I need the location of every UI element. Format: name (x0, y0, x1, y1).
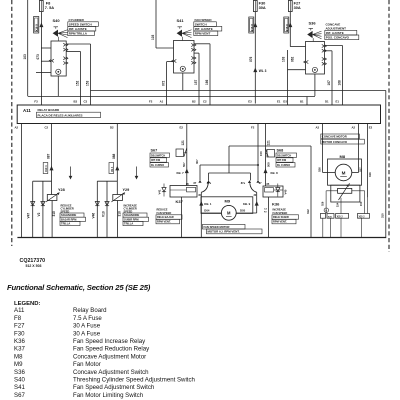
svg-text:168: 168 (337, 80, 341, 86)
svg-text:F2: F2 (251, 126, 255, 130)
svg-text:INCREASE: INCREASE (273, 208, 287, 212)
wire 046 (367, 124, 369, 198)
svg-text:S67: S67 (14, 392, 25, 399)
svg-text:153: 153 (85, 80, 89, 86)
junction KB.9 (255, 201, 259, 206)
svg-text:M9: M9 (14, 361, 23, 368)
sensor wires down (325, 191, 327, 214)
Y28 actuation arrow (70, 167, 72, 177)
svg-text:PLACA DE RELES AUXILIARES: PLACA DE RELES AUXILIARES (38, 114, 83, 118)
wire label 073 (40, 48, 42, 105)
svg-text:Fan Speed Reduction Relay: Fan Speed Reduction Relay (73, 346, 150, 353)
svg-text:062: 062 (291, 56, 295, 62)
svg-text:Fan Motor Limiting Switch: Fan Motor Limiting Switch (73, 392, 143, 399)
svg-text:TRILLA: TRILLA (61, 222, 70, 226)
svg-text:E2: E2 (180, 126, 184, 130)
wire K37 common down to motor (200, 192, 202, 237)
svg-text:046: 046 (368, 172, 372, 177)
svg-text:310: 310 (52, 211, 56, 217)
svg-text:V47: V47 (27, 213, 31, 219)
wire 026 (322, 124, 324, 173)
svg-text:E1: E1 (277, 100, 281, 104)
wire to K37 87a (208, 173, 210, 181)
svg-text:FAN SPEED MOTOR: FAN SPEED MOTOR (204, 225, 230, 229)
svg-text:ADJUSTMENT: ADJUSTMENT (326, 27, 347, 31)
svg-text:M8: M8 (340, 154, 346, 159)
relay K36 coil (263, 186, 283, 197)
svg-text:Y28: Y28 (58, 188, 65, 192)
svg-text:026: 026 (317, 167, 321, 172)
K37 label block (156, 215, 182, 219)
svg-text:512 X 503: 512 X 503 (26, 264, 42, 268)
svg-text:KB. 1: KB. 1 (204, 202, 212, 206)
svg-text:C2: C2 (45, 126, 49, 130)
svg-text:310: 310 (117, 211, 121, 217)
svg-text:K36: K36 (272, 201, 280, 206)
S36 contact box (306, 42, 325, 75)
svg-text:S41: S41 (14, 384, 25, 391)
wire S40 left pin 2 (41, 60, 51, 62)
svg-text:INT F/M: INT F/M (151, 159, 160, 162)
svg-text:157: 157 (194, 79, 198, 85)
svg-text:103: 103 (282, 56, 286, 62)
svg-text:X10 4: X10 4 (45, 165, 48, 172)
svg-text:MOTOR AJ. RPM VENT.: MOTOR AJ. RPM VENT. (208, 230, 240, 234)
svg-text:026: 026 (320, 201, 324, 206)
wire S36 out2 (325, 50, 333, 52)
svg-text:Relay Board: Relay Board (73, 307, 107, 314)
svg-text:INT. AJUSTE: INT. AJUSTE (326, 31, 344, 35)
svg-text:DL CURSO: DL CURSO (151, 164, 164, 167)
wire K36 coil to ground (268, 197, 270, 238)
fuse F30 30A (253, 1, 257, 12)
svg-text:V2: V2 (37, 212, 41, 216)
svg-text:87a: 87a (207, 182, 212, 185)
junction KB.7 (185, 169, 189, 174)
svg-text:BAJAR RPM: BAJAR RPM (61, 217, 76, 221)
svg-text:072: 072 (161, 80, 165, 86)
diode V46 (95, 202, 99, 206)
svg-text:FAN SPEED: FAN SPEED (157, 211, 172, 215)
svg-text:RELAY BOARD: RELAY BOARD (38, 108, 61, 112)
connector X16-6 (284, 17, 289, 33)
diode V40 (277, 184, 279, 188)
S41 bottom contact circle (180, 66, 185, 71)
svg-text:D1: D1 (325, 100, 329, 104)
wire 087 to Y28 (51, 124, 53, 195)
svg-text:INT. AJUSTE: INT. AJUSTE (195, 27, 213, 31)
svg-text:E3: E3 (248, 100, 252, 104)
K36 changeover contact arcs (250, 183, 257, 192)
switch S41 fan speed (178, 27, 183, 29)
svg-text:X16 9: X16 9 (35, 24, 39, 32)
wire 103 to S41 (155, 0, 157, 48)
wire 103 from top (27, 0, 29, 96)
relay K37 coil (170, 186, 197, 198)
svg-text:C2: C2 (203, 100, 207, 104)
Y29 actuation arrow (136, 167, 138, 177)
svg-text:F3: F3 (34, 100, 38, 104)
diode branch Y29 (97, 180, 117, 182)
wire 312 to ground (310, 146, 312, 238)
svg-text:X9 4: X9 4 (111, 166, 114, 172)
svg-text:M8: M8 (14, 353, 23, 360)
svg-text:F30: F30 (14, 330, 25, 337)
svg-text:F27: F27 (14, 323, 25, 330)
svg-text:WL 3: WL 3 (259, 69, 267, 73)
fuse F27 30A (288, 1, 292, 12)
K36 label block (272, 215, 299, 219)
svg-text:V10: V10 (101, 211, 105, 217)
svg-text:X16 6: X16 6 (285, 24, 289, 32)
svg-text:S67: S67 (151, 149, 158, 153)
svg-text:30 A Fuse: 30 A Fuse (73, 330, 101, 337)
svg-text:S36: S36 (309, 21, 317, 26)
wire S40 left pin 3 (36, 72, 51, 74)
switch S36 concave adjustment (309, 28, 314, 30)
svg-text:30A: 30A (259, 5, 266, 10)
svg-text:312: 312 (306, 209, 310, 214)
svg-text:87: 87 (259, 182, 262, 185)
svg-text:87: 87 (194, 182, 197, 185)
svg-text:150: 150 (359, 201, 363, 206)
svg-text:K37: K37 (14, 346, 25, 353)
svg-text:D04: D04 (204, 209, 210, 213)
motor M9 circle (221, 205, 236, 220)
S40 contact box (51, 41, 66, 76)
svg-text:SUBIR RPM: SUBIR RPM (124, 217, 139, 221)
relay board A11 (17, 105, 380, 124)
svg-text:LEGEND:: LEGEND: (14, 301, 41, 307)
svg-text:INT F/M: INT F/M (277, 159, 286, 162)
wire S41 bottom to bus (182, 73, 184, 91)
svg-text:V41: V41 (157, 189, 161, 194)
diode V41 (163, 184, 165, 188)
svg-text:150: 150 (259, 151, 263, 156)
svg-text:310: 310 (380, 213, 384, 218)
wire 310 Y29 to ground (117, 201, 119, 238)
left harness dashed line (11, 0, 13, 246)
svg-text:KB. 8: KB. 8 (271, 171, 279, 175)
Y28 label block (60, 213, 84, 217)
motor M8 circle (335, 164, 352, 181)
svg-text:DB.SWITCH: DB.SWITCH (277, 154, 291, 157)
svg-text:D2: D2 (110, 126, 114, 130)
wire 062 from F27 (289, 12, 291, 47)
wire S41 left pin2 (167, 61, 174, 63)
svg-text:FAN SPEED: FAN SPEED (273, 211, 288, 215)
svg-text:C2: C2 (264, 209, 268, 211)
ground bus (17, 237, 386, 239)
junction KB.1 (199, 201, 203, 206)
connector X10-4 (43, 163, 48, 174)
svg-text:Fan Speed Adjustment Switch: Fan Speed Adjustment Switch (73, 384, 154, 391)
connector X9-4 (109, 163, 114, 174)
solenoid Y29 (113, 195, 123, 201)
svg-text:A2: A2 (352, 126, 356, 130)
svg-text:Concave Adjustment Motor: Concave Adjustment Motor (73, 353, 146, 360)
svg-text:Functional Schematic, Section: Functional Schematic, Section 25 (SE 25) (7, 283, 151, 292)
svg-text:121: 121 (266, 140, 270, 146)
svg-text:307: 307 (195, 159, 199, 164)
svg-text:A1: A1 (160, 100, 164, 104)
potentiometer R (338, 188, 352, 193)
svg-text:7. 5A: 7. 5A (45, 5, 54, 10)
wire 310 right label (322, 218, 324, 237)
svg-text:M: M (227, 210, 231, 215)
junction WL 3 (253, 68, 257, 73)
svg-text:S36: S36 (14, 369, 25, 376)
svg-text:Threshing Cylinder Speed Adjus: Threshing Cylinder Speed Adjustment Swit… (73, 377, 195, 384)
svg-text:M: M (342, 170, 346, 175)
svg-text:076: 076 (249, 56, 253, 62)
svg-text:S40: S40 (53, 18, 61, 23)
svg-text:Fan Motor: Fan Motor (73, 361, 101, 368)
switch S40 cylinder speed (54, 27, 59, 29)
wire F8 down (40, 12, 42, 48)
diode V47 (31, 202, 35, 206)
svg-text:RPM VENT: RPM VENT (195, 32, 211, 36)
wire to K37 87 (199, 165, 201, 180)
svg-text:DB.SWITCH: DB.SWITCH (151, 154, 165, 157)
motor M8 box (328, 159, 362, 185)
svg-text:152: 152 (75, 80, 79, 86)
svg-text:087: 087 (46, 153, 50, 159)
svg-text:D3: D3 (283, 100, 287, 104)
diode V10 (105, 202, 109, 206)
wire S36 bottom to bus (314, 74, 316, 96)
wire K37 coil to ground (181, 197, 183, 238)
svg-text:KB. 9: KB. 9 (243, 202, 251, 206)
svg-text:A3: A3 (316, 126, 320, 130)
wire to K36 87a (250, 173, 252, 181)
concave position sensor box (331, 185, 360, 202)
svg-text:X16 8: X16 8 (250, 24, 254, 32)
wire 088 to Y29 (116, 124, 118, 195)
junction arrow to X16 (39, 23, 43, 28)
svg-text:F2: F2 (149, 100, 153, 104)
svg-text:POS. CONCAVO: POS. CONCAVO (326, 36, 350, 40)
wire drop to arch (228, 146, 230, 173)
connector row below sensor (324, 208, 328, 212)
fan motor M9 box (201, 197, 253, 214)
svg-text:C3: C3 (84, 100, 88, 104)
svg-text:073: 073 (36, 54, 40, 60)
svg-text:7.5 A Fuse: 7.5 A Fuse (73, 315, 102, 322)
wire S41 out2 (194, 52, 199, 54)
svg-text:Fan Speed Increase Relay: Fan Speed Increase Relay (73, 338, 146, 345)
svg-text:INT. AJUSTE: INT. AJUSTE (69, 27, 87, 31)
svg-text:154: 154 (335, 202, 339, 207)
wire S40 out1 (66, 43, 90, 45)
wire S41 out1 (194, 43, 210, 45)
svg-text:SPEED SWITCH: SPEED SWITCH (69, 22, 92, 26)
potentiometer wiper arrow (339, 186, 348, 200)
svg-text:SWITCH: SWITCH (195, 22, 207, 26)
svg-text:B1: B1 (300, 100, 304, 104)
wire 307 horizontal (200, 164, 258, 166)
svg-text:E2: E2 (369, 126, 373, 130)
wire 310 right side down (385, 91, 387, 238)
K37 changeover contact arcs (201, 183, 208, 192)
wire 121 to S67 (186, 124, 188, 186)
svg-text:A11: A11 (23, 108, 31, 113)
svg-text:Concave Adjustment Switch: Concave Adjustment Switch (73, 369, 149, 376)
svg-text:SOLENOIDE: SOLENOIDE (124, 213, 140, 217)
svg-text:X25 2: X25 2 (337, 217, 344, 219)
svg-text:167: 167 (327, 80, 331, 86)
M9 label block (203, 224, 246, 229)
junction KB.8 (264, 169, 268, 174)
svg-text:SPEED: SPEED (61, 209, 70, 213)
svg-text:CONCAVE MOTOR: CONCAVE MOTOR (322, 135, 347, 139)
svg-text:F2: F2 (264, 212, 267, 214)
svg-text:X25 2: X25 2 (359, 217, 366, 219)
svg-text:30 A Fuse: 30 A Fuse (73, 323, 101, 330)
wire 027 (358, 124, 360, 173)
fuse F8 7.5A (39, 1, 43, 12)
svg-text:S40: S40 (14, 377, 25, 384)
wire 150 from A11 to K36 87 (257, 124, 259, 181)
wire S40 bottom to bus (57, 76, 59, 96)
svg-text:B3: B3 (74, 100, 78, 104)
svg-text:E1: E1 (336, 100, 340, 104)
wire feed bus y146 (229, 145, 311, 147)
svg-text:87a: 87a (241, 182, 246, 185)
svg-text:RPM VENT.: RPM VENT. (273, 220, 287, 224)
bus line y90 (91, 90, 386, 92)
svg-text:RPM TRILLA: RPM TRILLA (69, 32, 88, 36)
svg-text:088: 088 (112, 153, 116, 159)
bus line y96 (28, 96, 315, 98)
svg-text:507: 507 (182, 162, 186, 167)
concave motor label (321, 134, 360, 139)
svg-text:CQ217370: CQ217370 (20, 258, 46, 264)
wire S36 out1 (325, 45, 343, 47)
wire 076 (254, 12, 256, 104)
svg-text:K36: K36 (14, 338, 25, 345)
stub B1 to A11 (306, 97, 308, 106)
svg-text:REDUCE: REDUCE (157, 208, 168, 212)
arch over M9 (209, 172, 251, 174)
svg-text:027: 027 (359, 167, 363, 172)
svg-text:RELE SUBIR: RELE SUBIR (273, 215, 289, 219)
S41 contact box (174, 41, 195, 74)
svg-text:RELE BAJAR: RELE BAJAR (157, 215, 174, 219)
connector X16-9 (34, 17, 39, 34)
svg-text:MOTOR CONCAVO: MOTOR CONCAVO (322, 140, 348, 144)
wire F8 to S40 (41, 47, 51, 49)
diode branch Y28 (33, 180, 52, 182)
solenoid Y28 (47, 195, 57, 201)
svg-text:166: 166 (205, 79, 209, 85)
svg-text:A2: A2 (15, 126, 19, 130)
svg-text:Y29: Y29 (123, 188, 130, 192)
svg-text:DL CURSO: DL CURSO (277, 164, 290, 167)
S36 bottom contact circle (312, 67, 317, 72)
S40 bottom contact circle (56, 69, 61, 74)
wire K36 common down to motor (256, 192, 258, 213)
diode V2 (41, 202, 45, 206)
svg-text:RPM VENT.: RPM VENT. (157, 220, 171, 224)
svg-text:508: 508 (266, 162, 270, 167)
wire S40 out2 (66, 51, 80, 53)
svg-text:A11: A11 (14, 307, 25, 314)
wire 310 Y28 to ground (51, 201, 53, 238)
wire 150 to S68 (265, 124, 267, 187)
svg-text:SOLENOIDE: SOLENOIDE (61, 213, 77, 217)
right harness dashed line (388, 0, 390, 252)
svg-text:A: A (325, 209, 327, 212)
svg-text:103: 103 (151, 34, 155, 40)
svg-text:V40: V40 (284, 189, 288, 194)
svg-text:K37: K37 (176, 199, 184, 204)
svg-text:TRILLA: TRILLA (124, 222, 133, 226)
svg-text:103: 103 (23, 54, 27, 60)
switch S68 concave motor limit (276, 153, 297, 157)
Y29 label block (123, 213, 147, 217)
svg-text:F8: F8 (14, 315, 22, 322)
svg-text:V46: V46 (91, 213, 95, 219)
wire 103 to S36 (287, 50, 289, 105)
svg-text:M9: M9 (225, 199, 231, 204)
switch S67 fan motor limit (150, 153, 170, 157)
svg-text:B2: B2 (192, 100, 196, 104)
svg-text:D05: D05 (240, 209, 246, 213)
wire A11 pin A2 to ground bus (21, 124, 23, 238)
svg-text:121: 121 (181, 140, 185, 146)
svg-text:30A: 30A (294, 5, 301, 10)
svg-text:S41: S41 (177, 18, 185, 23)
svg-text:SPEED: SPEED (124, 209, 133, 213)
svg-text:KB. 7: KB. 7 (177, 171, 185, 175)
connector X16-8 (249, 17, 254, 33)
svg-text:S68: S68 (277, 149, 284, 153)
